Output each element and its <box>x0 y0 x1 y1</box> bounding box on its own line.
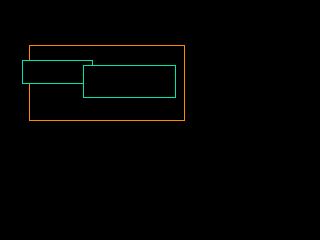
orange rectangle (outer box) <box>30 46 185 121</box>
green rectangle 1 (upper-left box, fill occludes orange edge) <box>23 61 93 84</box>
green rectangle 2 (right box, fill occludes rectangle 1 edges) <box>84 66 176 98</box>
